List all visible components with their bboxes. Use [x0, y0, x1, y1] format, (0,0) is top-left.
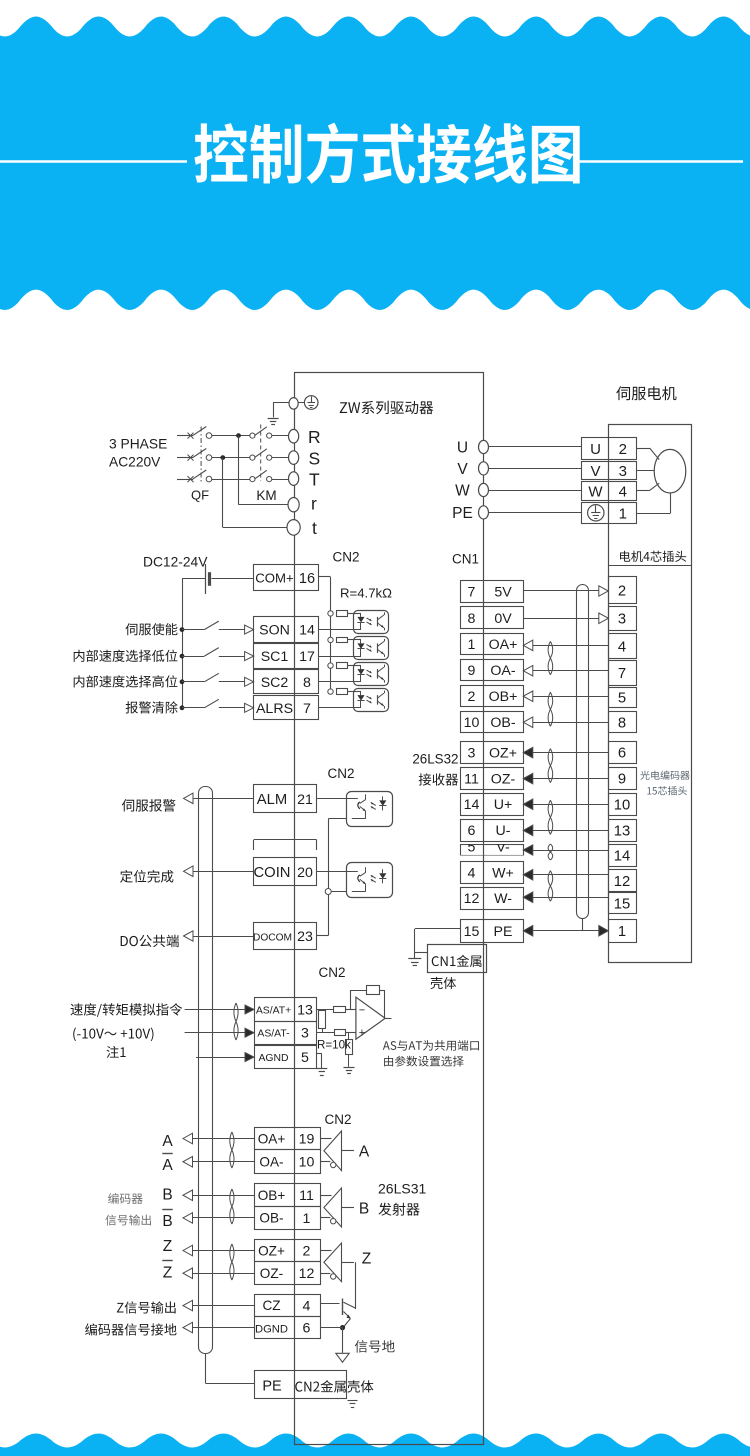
- svg-text:AGND: AGND: [258, 1053, 288, 1064]
- svg-text:V: V: [457, 461, 468, 478]
- svg-text:4: 4: [619, 484, 627, 501]
- label ZW系列驱动器: [340, 401, 433, 414]
- svg-text:OB+: OB+: [489, 689, 518, 705]
- wire CN1 OA+-4: [523, 640, 608, 651]
- QF linkage dash-dot line: [200, 427, 202, 483]
- svg-text:W: W: [455, 483, 470, 500]
- title 控制方式接线图: [194, 123, 579, 184]
- enclosure divider: [608, 565, 691, 567]
- svg-text:6: 6: [468, 823, 476, 839]
- svg-text:CZ: CZ: [262, 1298, 280, 1313]
- CN1 row 4 W+: [461, 862, 524, 884]
- terminal DOCOM 23: [253, 923, 317, 950]
- svg-text:26LS31: 26LS31: [378, 1181, 426, 1197]
- label A: [162, 1133, 173, 1150]
- KM linkage dashed line: [260, 425, 262, 482]
- breaker QF pole 3 blade: [193, 470, 207, 479]
- twist pair V (partial): [548, 844, 553, 860]
- svg-text:OA-: OA-: [259, 1155, 283, 1170]
- svg-text:5: 5: [618, 691, 626, 707]
- twist pair OZ: [548, 749, 553, 783]
- svg-text:R=4.7kΩ: R=4.7kΩ: [340, 586, 392, 601]
- arrow into AS/AT+: [245, 1005, 254, 1014]
- ground (AGND): [316, 1069, 327, 1076]
- optocoupler U1 (input SON): [318, 611, 389, 634]
- wire QF-KM L1: [212, 435, 250, 437]
- twist analog pair: [234, 1003, 238, 1040]
- twist pair OA: [548, 641, 553, 674]
- svg-text:DOCOM: DOCOM: [253, 933, 292, 944]
- label 接收器: [419, 773, 458, 785]
- svg-text:B: B: [162, 1187, 172, 1204]
- wire 3 to op-amp: [316, 1032, 334, 1034]
- contactor KM pole 3 contact right: [267, 477, 272, 482]
- wire encoder out row 4: [183, 1213, 254, 1224]
- phase wire L1: [177, 435, 193, 437]
- svg-text:R=10k: R=10k: [317, 1039, 351, 1052]
- svg-text:W+: W+: [492, 865, 514, 881]
- junction dot SC1: [180, 654, 185, 659]
- wire battery left: [182, 578, 205, 580]
- wire CN1 OZ+-6: [523, 747, 608, 758]
- wire U to motor block: [489, 446, 582, 448]
- junction circle DO bus: [325, 889, 331, 895]
- terminal AS/AT+ 13: [255, 998, 317, 1022]
- arrow into SON: [245, 625, 254, 634]
- label 光电编码器: [640, 771, 689, 780]
- label CN2 (outputs): [327, 766, 354, 781]
- CN2 row DGND 6: [255, 1317, 321, 1339]
- svg-text:0V: 0V: [494, 611, 512, 627]
- svg-text:5: 5: [301, 1050, 309, 1066]
- fuse mark phase 1: [188, 433, 194, 439]
- switch SON: [182, 621, 245, 630]
- wire DOCOM: [193, 936, 254, 938]
- contactor KM pole 1 contact right: [267, 433, 272, 438]
- label 电机4芯插头: [620, 551, 686, 562]
- wire KM to terminal 2: [272, 457, 289, 459]
- CN1 row 15 PE: [461, 920, 524, 943]
- wire CN1 5V-2: [523, 586, 608, 596]
- svg-text:R: R: [308, 427, 321, 447]
- svg-text:19: 19: [299, 1132, 315, 1148]
- wire encoder out row 8: [183, 1322, 254, 1333]
- wire QF-KM L2: [212, 457, 250, 459]
- arrow DO公共端: [184, 931, 194, 941]
- junction dot SC2: [180, 679, 185, 684]
- contactor KM pole 3 contact left: [250, 477, 255, 482]
- wire motor 1: [636, 493, 670, 514]
- svg-text:+: +: [359, 1027, 365, 1039]
- svg-text:4: 4: [468, 865, 476, 881]
- CN2 row CZ 4: [255, 1295, 321, 1317]
- svg-text:13: 13: [297, 1003, 313, 1019]
- optocoupler U2 (input SC1): [318, 637, 389, 660]
- CN2 row OA- 10: [255, 1150, 321, 1174]
- svg-text:2: 2: [303, 1244, 311, 1260]
- twist pair A out: [230, 1132, 234, 1168]
- line driver Z (26LS31): [320, 1243, 371, 1282]
- svg-text:T: T: [309, 470, 320, 490]
- junction dot DGND: [340, 1325, 345, 1330]
- resistor R4 input: [334, 1007, 346, 1013]
- label 编码器: [108, 1193, 143, 1204]
- terminal PE: [479, 506, 489, 519]
- shield drain wire: [582, 918, 584, 931]
- wire to chassis ground: [273, 403, 289, 418]
- ground (CN1 shell): [408, 959, 421, 966]
- title rule left: [0, 160, 187, 162]
- label 15芯插头: [647, 786, 687, 795]
- svg-text:1: 1: [468, 637, 476, 653]
- svg-text:8: 8: [468, 611, 476, 627]
- wire PE to motor block: [489, 512, 582, 514]
- CN2 row OZ- 12: [255, 1262, 321, 1285]
- svg-text:U+: U+: [494, 797, 513, 813]
- encoder pin 6: [609, 742, 637, 764]
- wire COIN: [193, 871, 254, 873]
- arrow 伺服报警: [184, 793, 194, 804]
- label 伺服电机: [616, 386, 676, 400]
- svg-text:t: t: [312, 518, 317, 538]
- label Z: [163, 1238, 172, 1255]
- encoder pin 2: [609, 577, 637, 604]
- svg-text:OB+: OB+: [258, 1188, 286, 1203]
- junction dot SON: [180, 627, 185, 632]
- svg-text:DC12-24V: DC12-24V: [143, 555, 208, 570]
- footer wave: [0, 1434, 750, 1456]
- twist pair OB: [548, 692, 553, 726]
- encoder pin 13: [609, 820, 637, 842]
- label CN2 (encoder out): [324, 1112, 351, 1127]
- wire CN1 U+-10: [523, 799, 608, 810]
- svg-text:Z: Z: [163, 1265, 172, 1282]
- arrow into SC1: [245, 652, 254, 661]
- svg-text:1: 1: [618, 924, 626, 940]
- resistor R3 termination: [319, 1010, 326, 1033]
- svg-text:3: 3: [619, 463, 627, 480]
- svg-text:U: U: [457, 440, 468, 457]
- svg-text:OA-: OA-: [490, 663, 515, 679]
- contactor KM pole 1 contact left: [250, 433, 255, 438]
- label S: [309, 449, 321, 469]
- label 壳体: [430, 977, 456, 989]
- svg-text:5V: 5V: [494, 585, 512, 601]
- svg-text:7: 7: [468, 585, 476, 601]
- svg-text:−: −: [359, 1005, 365, 1017]
- CN2 row OZ+ 2: [255, 1240, 321, 1262]
- encoder pin 3: [609, 607, 637, 631]
- svg-text:8: 8: [618, 715, 626, 731]
- CN2 row OB+ 11: [255, 1184, 321, 1207]
- CN1 row 7 5V: [461, 581, 524, 603]
- terminal COIN 20: [254, 858, 317, 886]
- wire encoder out row 3: [183, 1190, 254, 1201]
- encoder pin 12: [609, 870, 637, 892]
- svg-text:KM: KM: [256, 488, 276, 503]
- banner background: [0, 17, 750, 311]
- encoder pin 9: [609, 768, 637, 790]
- svg-text:6: 6: [618, 746, 626, 762]
- svg-text:Z: Z: [163, 1238, 172, 1255]
- earth circle symbol: [298, 396, 318, 410]
- wire encoder out row 7: [183, 1300, 254, 1311]
- label 发射器: [378, 1203, 419, 1216]
- twist pair B out: [230, 1189, 234, 1224]
- arrow into SC2: [245, 677, 254, 686]
- svg-text:14: 14: [464, 797, 480, 813]
- motor block row 1: [582, 503, 637, 524]
- svg-text:12: 12: [299, 1266, 315, 1282]
- svg-text:W-: W-: [494, 891, 512, 907]
- wire ALM: [193, 798, 254, 800]
- svg-text:11: 11: [299, 1188, 314, 1204]
- terminal SON 14: [254, 617, 319, 643]
- svg-text:SC2: SC2: [261, 675, 289, 691]
- wire motor 3: [636, 470, 654, 472]
- wire encoder out row 1: [183, 1133, 254, 1144]
- note 由参数设置选择: [384, 1056, 464, 1067]
- svg-text:AC220V: AC220V: [109, 455, 161, 470]
- wire CN1 OA--7: [523, 666, 608, 677]
- motor+encoder enclosure: [609, 425, 692, 963]
- terminal V: [479, 462, 489, 475]
- label Z-bar: [162, 1261, 172, 1282]
- svg-text:11: 11: [464, 772, 479, 788]
- resistor R7 to ground: [346, 1033, 353, 1067]
- svg-text:16: 16: [299, 571, 315, 587]
- svg-text:13: 13: [614, 824, 630, 840]
- CN1 row 10 OB-: [461, 712, 524, 733]
- wire CN1 OB--8: [523, 717, 608, 728]
- terminal R: [289, 429, 299, 443]
- label 3 PHASE: [109, 437, 167, 452]
- label Z信号输出: [117, 1301, 176, 1313]
- svg-text:QF: QF: [191, 488, 209, 503]
- CN2 row OA+ 19: [255, 1128, 321, 1150]
- svg-text:15: 15: [464, 924, 480, 940]
- svg-text:3 PHASE: 3 PHASE: [109, 437, 167, 452]
- terminal AS/AT- 3: [255, 1022, 317, 1045]
- terminal S: [289, 451, 299, 465]
- terminal W: [479, 483, 489, 496]
- junction dot phase R: [236, 433, 241, 438]
- wire W to motor block: [489, 490, 582, 492]
- svg-text:U-: U-: [496, 823, 511, 839]
- label V output: [457, 461, 468, 478]
- contactor KM pole 2 contact left: [250, 455, 255, 460]
- line driver A (26LS31): [320, 1131, 369, 1171]
- wire CN1 V--14: [523, 845, 608, 855]
- wire encoder out row 2: [183, 1157, 254, 1168]
- wire R4 to inverting input: [346, 1009, 356, 1011]
- label T: [309, 470, 320, 490]
- svg-text:W: W: [588, 484, 603, 501]
- CN1 row 11 OZ-: [461, 768, 524, 790]
- terminal T: [289, 472, 299, 486]
- svg-text:OZ-: OZ-: [260, 1266, 283, 1281]
- cable shield left: [199, 787, 213, 1354]
- feedback wire: [350, 990, 366, 1010]
- wire CN1 W+-12: [523, 870, 608, 881]
- junction dot ALRS: [180, 705, 185, 710]
- encoder pin 4: [609, 634, 637, 659]
- svg-text:COIN: COIN: [254, 865, 291, 881]
- optocoupler U3 (input SC2): [318, 663, 389, 686]
- line driver B (26LS31): [320, 1188, 369, 1227]
- svg-text:23: 23: [297, 929, 313, 945]
- svg-text:21: 21: [297, 792, 313, 808]
- svg-text:10: 10: [299, 1155, 315, 1171]
- svg-text:2: 2: [618, 584, 626, 600]
- svg-text:9: 9: [618, 772, 626, 788]
- optocoupler U6 (COIN out): [317, 863, 393, 898]
- svg-text:3: 3: [468, 746, 476, 762]
- twist pair Z out: [230, 1244, 234, 1280]
- svg-text:PE: PE: [262, 1379, 282, 1395]
- label CN2 (inputs): [332, 550, 359, 565]
- svg-text:12: 12: [464, 891, 480, 907]
- label CN2 (analog): [318, 965, 345, 980]
- svg-text:AS/AT+: AS/AT+: [256, 1005, 291, 1016]
- svg-text:SON: SON: [259, 623, 290, 639]
- wire encoder out row 6: [183, 1268, 254, 1279]
- terminal ALM 21: [254, 785, 317, 813]
- svg-text:CN2: CN2: [318, 965, 345, 980]
- wire CN1 PE-1: [523, 926, 608, 937]
- svg-text:12: 12: [614, 874, 630, 890]
- svg-text:A: A: [359, 1144, 370, 1161]
- svg-text:A: A: [162, 1157, 173, 1174]
- svg-text:6: 6: [303, 1321, 311, 1337]
- terminal r: [288, 498, 299, 512]
- label 报警清除: [126, 701, 178, 713]
- terminal PE (CN2 shell): [255, 1371, 347, 1399]
- motor block earth symbol: [588, 505, 604, 521]
- arrow into AS/AT-: [245, 1028, 254, 1037]
- wire battery right: [212, 578, 254, 580]
- svg-text:10: 10: [464, 715, 480, 731]
- svg-text:1: 1: [303, 1211, 311, 1227]
- svg-text:7: 7: [303, 701, 311, 717]
- svg-text:OB-: OB-: [259, 1211, 283, 1226]
- label U output: [457, 440, 468, 457]
- phase wire L2: [177, 457, 193, 459]
- opto lead U5: [328, 818, 347, 820]
- svg-text:OZ-: OZ-: [491, 772, 516, 788]
- arrow into AGND: [245, 1053, 254, 1062]
- wire CN1 W--15: [523, 892, 608, 903]
- optocoupler U4 (input ALRS): [318, 689, 389, 712]
- label DC12-24V: [143, 555, 208, 570]
- DO common bus: [317, 819, 329, 936]
- svg-text:PE: PE: [494, 924, 513, 940]
- resistor R5 input: [335, 1030, 346, 1036]
- contactor KM pole 2 blade: [255, 449, 267, 458]
- svg-text:20: 20: [297, 865, 313, 881]
- label 速度/转矩模拟指令: [71, 1003, 183, 1017]
- CN1 row 2 OB+: [461, 686, 524, 707]
- terminal t: [287, 520, 300, 536]
- svg-text:OZ+: OZ+: [258, 1243, 285, 1258]
- encoder pin 7: [609, 661, 637, 686]
- CN1 row 6 U-: [461, 820, 524, 842]
- svg-text:OZ+: OZ+: [489, 746, 517, 762]
- svg-text:PE: PE: [452, 505, 473, 522]
- partial box: [254, 840, 317, 851]
- motor block row W4: [582, 482, 637, 501]
- svg-text:9: 9: [468, 663, 476, 679]
- label B: [162, 1187, 172, 1204]
- wire CN1 U--13: [523, 825, 608, 836]
- label r: [311, 494, 317, 514]
- CN2 row OB- 1: [255, 1207, 321, 1230]
- terminal SC1 17: [254, 644, 319, 669]
- wire shield to PE: [206, 1354, 255, 1384]
- CN1 row 14 U+: [461, 794, 524, 816]
- label A-bar: [162, 1154, 173, 1175]
- svg-text:B: B: [162, 1213, 172, 1230]
- label R=4.7kΩ: [340, 586, 392, 601]
- wire AS/AT+: [185, 1009, 245, 1011]
- motor block row U2: [582, 438, 637, 460]
- terminal COM+ 16: [254, 565, 319, 591]
- arrow into ALRS: [245, 703, 254, 712]
- terminal SC2 8: [254, 670, 319, 694]
- label 定位完成: [120, 870, 173, 883]
- CN1 row 9 OA-: [461, 660, 524, 681]
- label (-10V～+10V): [73, 1028, 153, 1042]
- junction dot phase S: [220, 455, 225, 460]
- battery V1: [206, 564, 210, 594]
- wire motor 4: [636, 483, 659, 490]
- svg-text:DGND: DGND: [255, 1324, 288, 1336]
- label 信号输出: [105, 1215, 151, 1226]
- svg-text:1: 1: [619, 505, 627, 522]
- wire CN1 OB+-5: [523, 691, 608, 702]
- op-amp U7: [356, 997, 385, 1039]
- svg-text:3: 3: [301, 1026, 309, 1042]
- breaker QF pole 3 contact: [206, 476, 212, 482]
- svg-text:B: B: [359, 1201, 369, 1218]
- wire encoder out row 5: [183, 1245, 254, 1256]
- wire CN1 shell ground: [415, 929, 461, 959]
- label CN1: [452, 552, 479, 567]
- ground (CN2 shell): [348, 1401, 358, 1408]
- svg-text:SC1: SC1: [261, 649, 289, 665]
- wire R5 to non-inverting input: [345, 1032, 356, 1034]
- ground (op-amp +): [344, 1068, 355, 1074]
- title rule right: [573, 160, 743, 162]
- label KM: [256, 488, 276, 503]
- svg-text:2: 2: [619, 441, 627, 458]
- cable shield right: [577, 585, 589, 919]
- svg-text:10: 10: [614, 797, 630, 813]
- switch SC1: [182, 648, 245, 657]
- wire CN1 OZ--9: [523, 773, 608, 784]
- wire QF-KM L3: [212, 479, 250, 481]
- label QF: [191, 488, 209, 503]
- terminal AGND 5: [255, 1046, 317, 1069]
- wire AGND: [196, 1057, 245, 1059]
- contactor KM pole 1 blade: [255, 427, 267, 436]
- CN1 row 12 W-: [461, 888, 524, 910]
- contactor KM pole 3 blade: [255, 470, 267, 479]
- svg-text:26LS32: 26LS32: [412, 752, 458, 767]
- svg-text:17: 17: [299, 649, 315, 665]
- transistor Q1: [320, 1299, 355, 1328]
- svg-text:AS/AT-: AS/AT-: [257, 1029, 289, 1040]
